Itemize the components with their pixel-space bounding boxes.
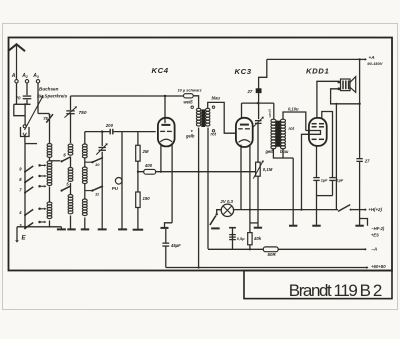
- transformer IF2 secondary: [281, 119, 286, 149]
- svg-text:1µF: 1µF: [337, 179, 344, 183]
- switch heater: [210, 216, 216, 226]
- wire +H out: [351, 208, 367, 211]
- svg-text:200: 200: [105, 123, 114, 128]
- svg-text:2V 0,3: 2V 0,3: [219, 199, 233, 204]
- capacitor 1uF a: [313, 178, 328, 183]
- wire cap a down: [315, 180, 317, 225]
- wire 190 down: [137, 207, 139, 229]
- wire 0.1u coupling: [283, 107, 306, 131]
- label +A: [367, 55, 382, 66]
- svg-text:0,5µ: 0,5µ: [237, 236, 245, 241]
- wire grid top: [71, 95, 184, 97]
- wire KDD1 grid loop: [300, 131, 320, 211]
- wire col C bottom: [84, 217, 86, 229]
- wire KC4 cathode leg: [164, 143, 172, 228]
- svg-text:Brandt 119 B 2: Brandt 119 B 2: [289, 281, 383, 300]
- resistor 2M: [136, 145, 149, 161]
- wire IF2 primary riser: [273, 103, 275, 119]
- ground col C: [81, 228, 89, 230]
- label +H: [368, 207, 382, 212]
- transformer IF2 core: [276, 121, 280, 146]
- switch 11: [85, 186, 103, 196]
- wire KC4 left leg: [160, 144, 162, 173]
- label weiss IF2: [267, 109, 272, 118]
- wire -HF hook: [360, 219, 368, 226]
- wire 2M branch: [137, 132, 139, 146]
- label blau: [212, 96, 221, 109]
- wire col B bottom: [69, 215, 71, 229]
- svg-text:+60+80: +60+80: [371, 264, 386, 269]
- potentiometer 0.1M: [253, 160, 272, 179]
- ground col D: [98, 228, 107, 230]
- svg-text:–A: –A: [371, 246, 377, 251]
- speaker: [337, 77, 355, 93]
- svg-text:A2: A2: [21, 73, 28, 79]
- wire anode2 riser: [322, 112, 333, 178]
- switch 75: [43, 114, 53, 123]
- ground pot: [254, 227, 262, 229]
- wire KC3 cathode leg: [249, 144, 251, 232]
- wire socket down: [25, 136, 37, 143]
- label KC3: [235, 67, 252, 76]
- switch 6: [61, 153, 71, 163]
- wire speaker bottom: [331, 89, 361, 105]
- svg-text:45µF: 45µF: [170, 243, 181, 248]
- wire grid return: [292, 158, 294, 226]
- svg-text:+A: +A: [369, 55, 376, 60]
- coil L1c: [47, 202, 52, 219]
- antenna: [8, 44, 25, 79]
- wire col C top: [84, 132, 86, 144]
- transformer IF1 secondary: [206, 108, 210, 126]
- wire L1bc: [48, 186, 50, 202]
- svg-text:blau: blau: [212, 96, 221, 101]
- capacitor 27 block: [247, 89, 262, 94]
- wire col B top: [70, 96, 72, 110]
- transformer IF2 primary: [271, 119, 276, 149]
- label rot: [211, 130, 217, 137]
- svg-text:90-150V: 90-150V: [367, 61, 382, 66]
- svg-text:0,1M: 0,1M: [263, 167, 273, 172]
- ground heater switch: [211, 227, 220, 229]
- svg-text:400: 400: [144, 163, 153, 168]
- terminal A2: [21, 73, 28, 83]
- wire switch tap: [335, 104, 337, 210]
- svg-text:2M: 2M: [142, 149, 149, 154]
- svg-text:40k: 40k: [253, 236, 262, 241]
- wire A2 down: [26, 83, 28, 104]
- trimmer oscillator: [96, 132, 107, 155]
- svg-text:27: 27: [247, 89, 253, 94]
- label gelb IF2: [265, 149, 275, 154]
- wire +A rail: [267, 58, 367, 61]
- wire KDD1 cathode leg: [315, 145, 317, 177]
- switch +H: [338, 205, 352, 212]
- svg-text:E: E: [21, 235, 26, 242]
- title box: [244, 271, 392, 299]
- wire L1ab: [50, 157, 61, 160]
- resistor 40k: [248, 233, 262, 245]
- svg-text:A3: A3: [32, 73, 39, 79]
- label weiss: [184, 100, 194, 109]
- svg-text:7: 7: [19, 187, 22, 192]
- schematic frame: [8, 37, 392, 270]
- svg-text:weiß: weiß: [267, 109, 272, 118]
- coil L3c: [82, 199, 87, 216]
- wire rot down: [207, 128, 209, 249]
- ground PU: [118, 228, 127, 230]
- ground +A riser: [355, 225, 363, 227]
- wire IF2 bottom: [273, 148, 293, 158]
- svg-text:e: e: [191, 129, 193, 133]
- coil L1a: [47, 143, 52, 157]
- resistor 50R: [263, 247, 278, 257]
- svg-text:11: 11: [95, 191, 100, 196]
- svg-text:10: 10: [95, 162, 100, 167]
- ground E: [15, 227, 61, 243]
- switch contact 8: [19, 175, 46, 184]
- wire gelb screen: [197, 128, 199, 269]
- svg-text:Buchsen: Buchsen: [39, 86, 59, 91]
- wire speaker top: [317, 81, 339, 118]
- wire A rail corner: [259, 59, 267, 88]
- wire 27 down: [258, 93, 260, 120]
- svg-text:10 µ schwarz: 10 µ schwarz: [178, 87, 202, 92]
- label KDD1: [306, 67, 329, 76]
- tube KDD1: [309, 118, 327, 146]
- wire L3bc: [84, 184, 86, 199]
- svg-text:KC4: KC4: [152, 66, 169, 75]
- svg-text:+H(+2): +H(+2): [368, 207, 382, 212]
- switch contact 7: [19, 185, 46, 194]
- socket for wave trap: [21, 125, 30, 137]
- label rot IF2: [289, 126, 295, 131]
- terminal A1: [11, 73, 18, 83]
- coil L2b: [68, 167, 73, 181]
- switch contact 3: [19, 221, 46, 230]
- svg-text:0,10u: 0,10u: [288, 107, 299, 112]
- svg-text:weiß: weiß: [184, 100, 194, 105]
- coil L2a: [68, 144, 73, 155]
- svg-text:PU: PU: [112, 186, 119, 191]
- coil L1b: [47, 161, 52, 186]
- wire L3ab: [84, 158, 86, 167]
- wire socket loop: [14, 104, 25, 124]
- wire cathode hook: [250, 222, 258, 224]
- capacitor 0.5uF: [229, 228, 245, 250]
- svg-text:rot: rot: [289, 126, 295, 131]
- terminal PU: [112, 177, 122, 190]
- wire pot down: [257, 176, 259, 228]
- svg-text:6: 6: [63, 153, 66, 158]
- svg-text:–HF-2): –HF-2): [371, 226, 384, 231]
- coil L3a: [82, 144, 87, 158]
- switch 5: [60, 181, 70, 191]
- label KC4: [152, 66, 169, 75]
- svg-text:gelb: gelb: [185, 134, 195, 139]
- wire heater row: [234, 209, 338, 211]
- svg-text:3: 3: [19, 223, 22, 228]
- arrow wave trap: [25, 95, 44, 130]
- tube KC3: [236, 118, 253, 147]
- wire 2M to 190: [137, 161, 139, 192]
- wire L2bc: [69, 183, 71, 195]
- wire anode row: [242, 102, 274, 104]
- label +60+80: [371, 264, 386, 269]
- wire to IF1 primary: [193, 96, 198, 109]
- label -A: [371, 246, 377, 251]
- wire +60 rail: [166, 266, 369, 269]
- svg-text:1µF: 1µF: [321, 179, 328, 183]
- svg-text:50R: 50R: [267, 252, 276, 257]
- wire 40k down: [249, 245, 251, 251]
- ground grid return: [289, 225, 297, 227]
- capacitor 70: [16, 96, 32, 101]
- wire KC3 heater leg: [240, 145, 242, 210]
- wire blau to KC3 grid: [208, 102, 236, 133]
- svg-text:4: 4: [18, 210, 22, 215]
- node A1-A2 junction: [14, 103, 31, 105]
- svg-text:5: 5: [66, 181, 69, 186]
- wire lamp left: [215, 210, 221, 216]
- wire A3 down: [38, 83, 50, 114]
- ground col B: [67, 228, 75, 230]
- coil L2c: [68, 194, 73, 213]
- capacitor 200: [105, 123, 114, 135]
- resistor 10 ohm schwarz: [178, 87, 202, 97]
- wire tuned grid: [85, 130, 156, 133]
- switch contact 9: [19, 164, 46, 173]
- transformer IF1 primary: [196, 108, 200, 126]
- label Buchsen fuer Sperrkreis: [37, 86, 68, 98]
- wire +A riser: [358, 58, 360, 226]
- capacitor 27 decoupling: [356, 159, 370, 164]
- svg-text:+ES: +ES: [371, 233, 379, 238]
- svg-text:blau: blau: [280, 149, 289, 154]
- wire cap b jog: [316, 180, 332, 195]
- wire col A bottom: [48, 220, 50, 226]
- trimmer 750: [65, 106, 87, 117]
- svg-text:27: 27: [364, 159, 370, 164]
- wire A1 down: [16, 83, 18, 104]
- capacitor 1uF b: [329, 178, 344, 183]
- wire earth bus: [24, 144, 26, 227]
- resistor 400: [144, 163, 156, 174]
- svg-text:9: 9: [19, 167, 22, 172]
- label -HF: [371, 226, 385, 238]
- ground KC4 cathode: [160, 227, 168, 229]
- svg-text:190: 190: [142, 196, 150, 201]
- terminal A3: [32, 73, 39, 83]
- transformer IF1 core: [202, 110, 205, 127]
- ground 190: [133, 229, 144, 231]
- wire PU branch: [121, 132, 123, 230]
- wire trimmer to pot: [257, 123, 259, 162]
- title Brandt 119 B 2: [289, 281, 383, 300]
- lamp 2V 0.3: [219, 199, 233, 216]
- wire KC3 anode riser: [241, 103, 243, 118]
- wire cathode row: [138, 171, 256, 173]
- svg-text:70: 70: [16, 96, 21, 101]
- coil L3b: [82, 167, 87, 184]
- tube KC4: [158, 118, 175, 147]
- label gelb: [185, 129, 195, 138]
- wire KC4 grid cap: [164, 95, 166, 123]
- wire L2ab: [70, 156, 72, 167]
- svg-text:KC3: KC3: [235, 67, 252, 76]
- ground col A: [57, 227, 66, 230]
- wire col A top: [49, 115, 51, 144]
- svg-text:8: 8: [19, 177, 22, 182]
- trimmer padding: [253, 117, 264, 128]
- svg-text:KDD1: KDD1: [306, 67, 329, 76]
- wire col D: [101, 152, 103, 230]
- wire col B mid: [70, 114, 72, 143]
- switch 10: [85, 157, 103, 167]
- ground cap a: [312, 225, 320, 227]
- wire -A rail: [208, 248, 367, 251]
- resistor 190: [136, 192, 151, 208]
- svg-text:750: 750: [79, 110, 87, 116]
- capacitor 45uF: [162, 229, 181, 268]
- label blau IF2: [280, 149, 289, 154]
- switch contact 4: [18, 207, 46, 216]
